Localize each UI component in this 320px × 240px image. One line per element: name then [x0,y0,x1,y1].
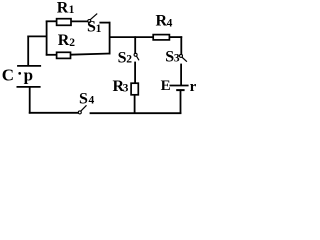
wire: R1 to S1 [71,20,88,22]
svg-text:S: S [118,49,127,66]
wire: battery to bottom-right corner [180,90,182,114]
svg-text:4: 4 [89,95,95,107]
wire: S3 to battery [180,64,182,86]
wire: R2 to box right edge [71,54,111,55]
capacitor C bottom plate [17,86,41,88]
resistor R4 [153,35,169,40]
svg-text:1: 1 [69,4,75,16]
node p dot [18,72,21,75]
svg-text:2: 2 [69,37,75,49]
wire: R4 to top-right corner [169,36,182,38]
wire: parallel box left edge [46,21,48,56]
switch S3 [180,54,183,57]
resistor R3 [131,83,138,95]
svg-text:R: R [57,0,69,16]
battery E short plate [176,89,184,91]
switch S4 [78,111,81,114]
wire: feed from capacitor to parallel box [27,35,47,37]
svg-text:1: 1 [96,23,102,35]
wire: capacitor up to feed [27,36,29,66]
wire: middle branch junction down to S2 [134,36,136,53]
switch S2 [134,53,137,56]
svg-text:S: S [165,48,174,65]
wire: parallel box right edge [109,22,111,55]
wire: bottom branch left segment [46,54,57,56]
switch S1 [88,20,91,23]
wire: S2 to R3 [134,62,136,84]
svg-text:p: p [24,66,33,85]
resistor R1 [57,19,71,26]
svg-text:3: 3 [174,53,180,65]
wire: main node wire to R4 [110,36,154,38]
battery E long plate [170,85,189,87]
wire: right edge down to S3 [180,36,182,54]
wire: bottom rail left of S4 [29,112,79,114]
capacitor C top plate [17,65,41,67]
svg-text:R: R [58,32,70,49]
wire: S1 to box right edge [99,22,110,24]
wire: R3 to bottom rail [134,95,136,113]
wire: bottom-left corner up to capacitor [29,87,31,114]
svg-text:3: 3 [123,83,129,95]
resistor R2 [57,52,71,58]
wire: top branch left segment [46,20,57,22]
wire: bottom rail right of S4 [90,112,182,114]
svg-text:E: E [161,78,171,94]
svg-text:C: C [2,66,14,85]
svg-text:S: S [79,90,88,107]
svg-text:2: 2 [126,54,132,66]
svg-text:r: r [190,79,197,95]
svg-text:4: 4 [167,17,173,29]
